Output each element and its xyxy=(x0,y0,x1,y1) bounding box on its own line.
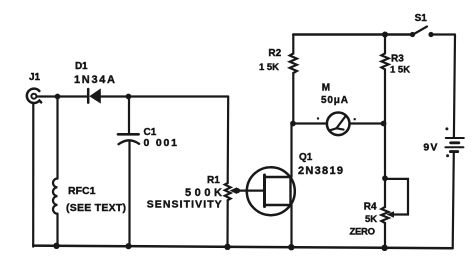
wire switch to right rail xyxy=(431,33,455,35)
switch S1 xyxy=(410,27,434,38)
junction R3 top xyxy=(382,32,388,38)
junction C1 bottom xyxy=(125,243,131,249)
svg-text:1 5K: 1 5K xyxy=(390,65,410,76)
junction node C xyxy=(290,121,296,127)
resistor R1 xyxy=(225,183,231,200)
right rail upper wire xyxy=(454,35,455,138)
svg-text:5K: 5K xyxy=(365,214,377,225)
junction R4 bottom xyxy=(381,245,387,251)
junction node B xyxy=(126,94,132,100)
transistor Q1 xyxy=(247,167,295,215)
svg-text:RFC1: RFC1 xyxy=(68,185,96,197)
wire R2 bottom to meter node C xyxy=(292,73,294,124)
right rail lower wire xyxy=(453,152,454,248)
wire J1 sleeve down xyxy=(32,103,34,246)
wire J1 to node A xyxy=(37,95,58,97)
wire R2 top xyxy=(292,35,294,54)
junction Q1 source bottom xyxy=(288,244,294,250)
svg-text:D1: D1 xyxy=(75,61,88,72)
wire R3 top junction to switch xyxy=(385,33,412,36)
svg-text:1 5K: 1 5K xyxy=(259,62,279,73)
capacitor C1 xyxy=(118,134,139,144)
svg-text:ZERO: ZERO xyxy=(350,227,376,238)
wire node A down to RFC1 xyxy=(56,97,58,179)
svg-text:S1: S1 xyxy=(415,13,428,24)
svg-text:Q1: Q1 xyxy=(299,152,313,163)
wire node B to R1 top corner xyxy=(129,95,229,97)
diode D1 xyxy=(88,88,101,103)
meter M xyxy=(317,113,356,136)
wire diode D1 to node B xyxy=(101,95,129,97)
wiper arrow R1 to Q1 gate xyxy=(230,187,265,194)
wire R3 bottom to node D xyxy=(384,69,386,123)
wire Q1 source down to bottom rail xyxy=(290,205,292,248)
svg-text:M: M xyxy=(322,83,330,94)
junction node E xyxy=(382,175,388,181)
wire node D down to R4 xyxy=(384,124,386,179)
resistor R3 xyxy=(381,53,388,69)
jack J1 xyxy=(27,89,41,103)
svg-text:SENSITIVITY: SENSITIVITY xyxy=(147,199,222,211)
wire R3 branch xyxy=(384,35,386,54)
svg-text:J1: J1 xyxy=(29,72,41,83)
resistor R4 xyxy=(381,207,388,223)
junction node A xyxy=(55,94,61,100)
svg-text:0 001: 0 001 xyxy=(144,137,178,149)
svg-text:(SEE TEXT): (SEE TEXT) xyxy=(66,202,126,214)
svg-text:2N3819: 2N3819 xyxy=(298,165,343,177)
svg-text:500K: 500K xyxy=(185,187,222,199)
svg-text:R4: R4 xyxy=(364,202,377,213)
wire R4 loop xyxy=(385,179,408,215)
svg-text:R1: R1 xyxy=(207,175,220,186)
wire R1 top xyxy=(227,97,230,184)
wiper arrow R4 xyxy=(387,211,395,218)
svg-text:1N34A: 1N34A xyxy=(74,74,115,86)
wire R4 bottom xyxy=(384,223,386,249)
wire RFC1 to bottom rail xyxy=(56,214,58,247)
svg-text:9V: 9V xyxy=(423,142,437,154)
junction node D xyxy=(381,121,387,127)
svg-text:R2: R2 xyxy=(268,48,281,59)
top rail wire xyxy=(293,33,385,36)
svg-text:50μA: 50μA xyxy=(321,95,348,106)
junction R1 bottom xyxy=(224,244,230,250)
svg-text:R3: R3 xyxy=(391,54,404,65)
wire R1 bottom xyxy=(226,200,228,248)
wire C1 to bottom rail xyxy=(128,141,130,247)
resistor R2 xyxy=(290,54,297,73)
battery B1 9V xyxy=(445,127,463,157)
wire node A to diode D1 xyxy=(58,95,88,97)
bottom rail wire xyxy=(33,246,452,249)
wire node B down to C1 xyxy=(128,97,130,134)
wire Q1 drain up to meter node xyxy=(290,124,292,178)
wire R4 to node E xyxy=(384,178,386,207)
wire meter to node D xyxy=(350,122,384,124)
wire node C to meter xyxy=(293,122,327,124)
junction RFC1 bottom xyxy=(53,243,59,249)
inductor RFC1 xyxy=(53,179,58,214)
